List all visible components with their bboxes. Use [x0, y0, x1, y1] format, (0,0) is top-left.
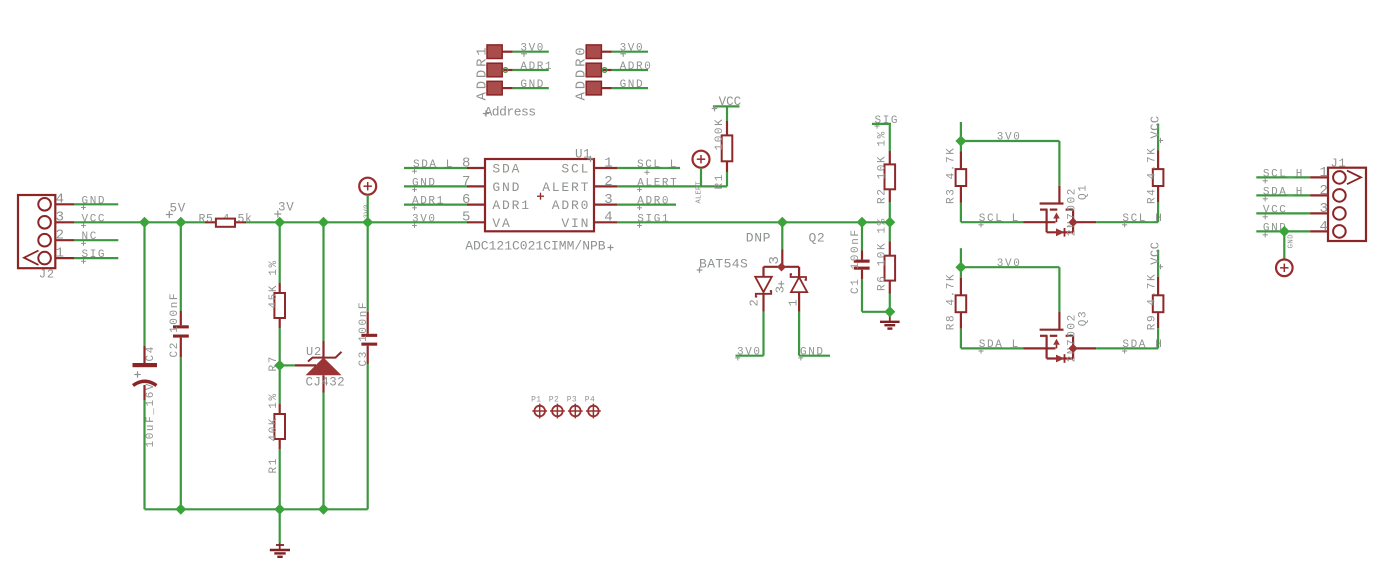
svg-text:1: 1 [1320, 165, 1328, 181]
svg-text:ADR1: ADR1 [520, 61, 553, 73]
svg-text:C4: C4 [145, 345, 157, 361]
svg-text:GND: GND [1288, 234, 1296, 249]
svg-text:ADR1: ADR1 [412, 196, 445, 208]
svg-text:P4: P4 [585, 396, 595, 405]
svg-text:GND: GND [620, 79, 645, 91]
svg-text:R1: R1 [714, 173, 726, 189]
svg-text:5V: 5V [170, 202, 187, 216]
svg-text:2: 2 [604, 174, 612, 190]
svg-text:6: 6 [462, 192, 470, 208]
svg-text:R3 4.7K: R3 4.7K [946, 147, 958, 204]
svg-text:1: 1 [56, 246, 64, 262]
svg-text:ALERT: ALERT [696, 181, 704, 204]
svg-text:100K: 100K [714, 118, 726, 151]
svg-text:SCL_L: SCL_L [637, 159, 678, 171]
svg-text:1: 1 [787, 299, 801, 306]
svg-text:ADR0: ADR0 [552, 198, 590, 213]
svg-text:2: 2 [56, 228, 64, 244]
svg-text:40K 1%: 40K 1% [268, 392, 280, 441]
svg-text:VCC: VCC [719, 95, 742, 109]
svg-text:VIN: VIN [561, 216, 590, 231]
svg-text:J2: J2 [39, 268, 55, 282]
svg-text:3: 3 [1320, 201, 1328, 217]
svg-text:ADR1: ADR1 [492, 198, 530, 213]
svg-text:R4 4.7K: R4 4.7K [1147, 147, 1159, 204]
svg-text:C2 100nF: C2 100nF [169, 292, 181, 358]
svg-text:SIG1: SIG1 [637, 213, 670, 225]
svg-text:R2 10K 1%: R2 10K 1% [877, 130, 889, 204]
svg-text:DNP: DNP [746, 231, 771, 246]
svg-text:10uF_16V: 10uF_16V [145, 382, 157, 448]
svg-text:ADC121C021CIMM/NPB: ADC121C021CIMM/NPB [465, 239, 606, 254]
svg-text:3: 3 [56, 210, 64, 226]
svg-text:SDA: SDA [492, 162, 521, 177]
svg-text:5: 5 [462, 210, 470, 226]
svg-text:SDA_L: SDA_L [413, 159, 454, 171]
svg-text:GND: GND [492, 180, 521, 195]
svg-text:ADDR0: ADDR0 [574, 44, 590, 100]
svg-text:Q1: Q1 [1078, 184, 1090, 200]
svg-text:P1: P1 [531, 396, 541, 405]
svg-text:R5: R5 [199, 213, 214, 226]
svg-text:ALERT: ALERT [542, 180, 590, 195]
svg-text:45K 1%: 45K 1% [268, 259, 280, 308]
svg-text:3V: 3V [278, 201, 295, 215]
svg-text:P3: P3 [567, 396, 577, 405]
svg-text:2: 2 [748, 299, 762, 306]
svg-text:VCC: VCC [1149, 115, 1163, 138]
svg-text:CJ432: CJ432 [306, 376, 346, 390]
svg-text:SCL_L: SCL_L [979, 213, 1020, 225]
svg-text:3: 3 [604, 192, 612, 208]
svg-text:ADDR1: ADDR1 [475, 44, 491, 100]
svg-text:SIG: SIG [82, 249, 107, 261]
svg-text:SCL_H: SCL_H [1263, 168, 1304, 180]
svg-text:VA: VA [492, 216, 511, 231]
svg-text:VCC: VCC [1149, 242, 1163, 265]
svg-text:J1: J1 [1331, 157, 1347, 171]
svg-text:8: 8 [462, 155, 470, 171]
svg-text:Address: Address [485, 105, 536, 120]
svg-text:U2: U2 [306, 345, 322, 359]
svg-text:C3 100nF: C3 100nF [358, 301, 370, 367]
svg-text:BAT54S: BAT54S [699, 257, 748, 272]
svg-text:3: 3 [774, 286, 788, 293]
svg-text:3V0: 3V0 [412, 213, 437, 225]
svg-text:4: 4 [56, 192, 64, 208]
svg-text:R6 10K 1%: R6 10K 1% [877, 217, 889, 291]
svg-text:4: 4 [604, 210, 612, 226]
svg-text:ADR0: ADR0 [637, 196, 670, 208]
svg-text:R9 4.7K: R9 4.7K [1147, 273, 1159, 330]
svg-text:P2: P2 [549, 396, 559, 405]
svg-text:R1: R1 [268, 457, 280, 473]
svg-text:VCC: VCC [82, 213, 107, 225]
svg-text:3: 3 [767, 256, 783, 264]
svg-text:R8 4.7K: R8 4.7K [946, 273, 958, 330]
svg-text:Q3: Q3 [1078, 310, 1090, 326]
svg-text:SDA_L: SDA_L [979, 339, 1020, 351]
svg-text:4: 4 [1320, 219, 1328, 235]
svg-text:GND: GND [800, 347, 825, 359]
svg-text:2: 2 [1320, 183, 1328, 199]
svg-text:VCC: VCC [1263, 204, 1288, 216]
svg-text:SDA_H: SDA_H [1263, 186, 1304, 198]
svg-text:1: 1 [604, 155, 612, 171]
svg-text:ADR0: ADR0 [620, 61, 653, 73]
svg-text:3V0: 3V0 [997, 258, 1022, 270]
svg-text:SCL: SCL [561, 162, 590, 177]
svg-text:Q2: Q2 [809, 231, 826, 246]
svg-text:GND: GND [520, 79, 545, 91]
svg-text:3V0: 3V0 [997, 132, 1022, 144]
svg-text:7: 7 [462, 174, 470, 190]
svg-text:ALERT: ALERT [637, 177, 678, 189]
svg-text:3V0: 3V0 [737, 347, 762, 359]
svg-text:GND: GND [412, 177, 437, 189]
svg-text:GND: GND [82, 195, 107, 207]
svg-text:C1 100nF: C1 100nF [850, 228, 862, 294]
